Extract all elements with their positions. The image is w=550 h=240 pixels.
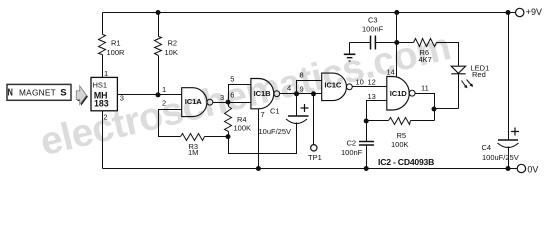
wire top rail to R2: [158, 13, 160, 37]
svg-text:IC1C: IC1C: [324, 81, 342, 90]
svg-text:100nF: 100nF: [341, 148, 363, 157]
resistor R6: [397, 42, 414, 44]
svg-text:5: 5: [230, 75, 234, 84]
wire IC1A pin2 feedback via R3: [159, 110, 182, 137]
svg-text:C3: C3: [368, 16, 378, 25]
svg-text:IC1A: IC1A: [185, 97, 203, 106]
nand gate IC1A: [182, 88, 207, 117]
svg-text:3: 3: [220, 93, 224, 102]
svg-text:7: 7: [261, 110, 265, 119]
node top rail / R2: [156, 10, 161, 15]
svg-text:100R: 100R: [107, 48, 126, 57]
capacitor C1: [296, 94, 298, 117]
svg-text:11: 11: [421, 84, 429, 93]
svg-text:2: 2: [103, 112, 107, 121]
node TP1: [311, 91, 316, 96]
arrow magnet to sensor: [78, 87, 88, 106]
svg-text:N: N: [8, 86, 13, 97]
node R3/R4/C1: [226, 134, 231, 139]
wire node to IC1C pin8: [297, 81, 322, 94]
wire HS1 pin2 to bottom rail: [102, 111, 104, 169]
ground: [349, 43, 351, 55]
svg-text:100uF/25V: 100uF/25V: [482, 153, 519, 162]
capacitor C3: [350, 42, 397, 44]
wire IC1B pin7 to 0V rail: [258, 109, 260, 169]
svg-text:MAGNET: MAGNET: [19, 87, 56, 97]
svg-text:2: 2: [162, 99, 166, 108]
wire R2 to signal node: [158, 56, 160, 95]
resistor R3: [181, 134, 205, 141]
svg-text:Red: Red: [472, 70, 486, 79]
resistor R5: [411, 120, 435, 122]
wire pin14 riser to top rail: [396, 13, 398, 77]
nand gate IC1C: [322, 73, 347, 101]
svg-text:10: 10: [356, 78, 364, 87]
wire IC1D out down to LED/R5 node: [416, 94, 435, 121]
capacitor C2: [366, 121, 368, 142]
LED LED1: [451, 66, 465, 73]
wire IC1D pin13 to R5/C2 node: [367, 101, 387, 121]
svg-text:HS1: HS1: [93, 80, 108, 89]
svg-text:100nF: 100nF: [362, 25, 384, 34]
resistor R1: [99, 35, 106, 55]
test point TP1: [313, 94, 315, 145]
svg-text:IC1B: IC1B: [254, 89, 272, 98]
svg-text:4: 4: [287, 84, 291, 93]
svg-text:1M: 1M: [188, 148, 198, 157]
wire IC1A out to IC1B pin6: [213, 102, 251, 104]
svg-text:IC2 - CD4093B: IC2 - CD4093B: [378, 157, 434, 167]
svg-text:IC1D: IC1D: [390, 89, 408, 98]
svg-text:14: 14: [387, 68, 395, 77]
wire IC1C out to IC1D pin12: [353, 86, 387, 88]
wire IC1B out to IC1C pin9: [280, 93, 322, 95]
node R2 / signal: [156, 92, 161, 97]
svg-text:C4: C4: [482, 143, 492, 152]
wire LED to node: [435, 108, 459, 110]
resistor R4: [228, 103, 230, 107]
svg-text:100K: 100K: [234, 124, 252, 133]
svg-text:TP1: TP1: [308, 153, 322, 162]
svg-text:R5: R5: [397, 131, 407, 140]
terminal +9V: [516, 8, 524, 16]
nand gate IC1B: [251, 79, 274, 109]
svg-text:10uF/25V: 10uF/25V: [259, 127, 292, 136]
svg-text:1: 1: [104, 69, 108, 78]
sensor HS1 MH183 box: [91, 77, 117, 110]
wire node to C1 bottom: [229, 123, 297, 154]
svg-text:C2: C2: [347, 139, 357, 148]
svg-text:13: 13: [368, 92, 376, 101]
svg-text:0V: 0V: [527, 164, 538, 174]
svg-text:+9V: +9V: [526, 7, 542, 17]
node top rail / C4: [506, 10, 511, 15]
terminal 0V: [517, 164, 525, 172]
wire HS1 pin3 to IC1A pin1: [118, 94, 182, 96]
capacitor C4: [508, 13, 510, 141]
svg-text:9: 9: [300, 85, 304, 94]
node IC1A output / R4: [226, 100, 231, 105]
svg-text:R1: R1: [111, 39, 121, 48]
svg-text:100K: 100K: [391, 140, 409, 149]
svg-text:6: 6: [230, 91, 234, 100]
wire node to IC1B pin5: [229, 85, 251, 103]
resistor R2: [155, 37, 162, 56]
wire top +9V rail: [103, 12, 516, 14]
svg-text:C1: C1: [270, 107, 280, 116]
svg-text:4K7: 4K7: [419, 55, 432, 64]
LED arrows: [462, 81, 467, 88]
wire R1 to HS1 pin1: [102, 55, 104, 78]
svg-text:1: 1: [162, 85, 166, 94]
node C1/pin8: [294, 91, 299, 96]
svg-text:12: 12: [368, 78, 376, 87]
node C3/R6: [394, 40, 399, 45]
wire top rail to R1: [102, 13, 104, 35]
svg-text:8: 8: [300, 71, 304, 80]
svg-text:R2: R2: [168, 39, 178, 48]
svg-text:S: S: [60, 87, 66, 98]
svg-text:10K: 10K: [165, 48, 178, 57]
svg-text:183: 183: [94, 99, 109, 109]
wire R3 to node: [205, 136, 229, 138]
magnet box: [7, 84, 71, 100]
wire bottom 0V rail: [103, 168, 518, 170]
nand gate IC1D: [387, 77, 409, 111]
